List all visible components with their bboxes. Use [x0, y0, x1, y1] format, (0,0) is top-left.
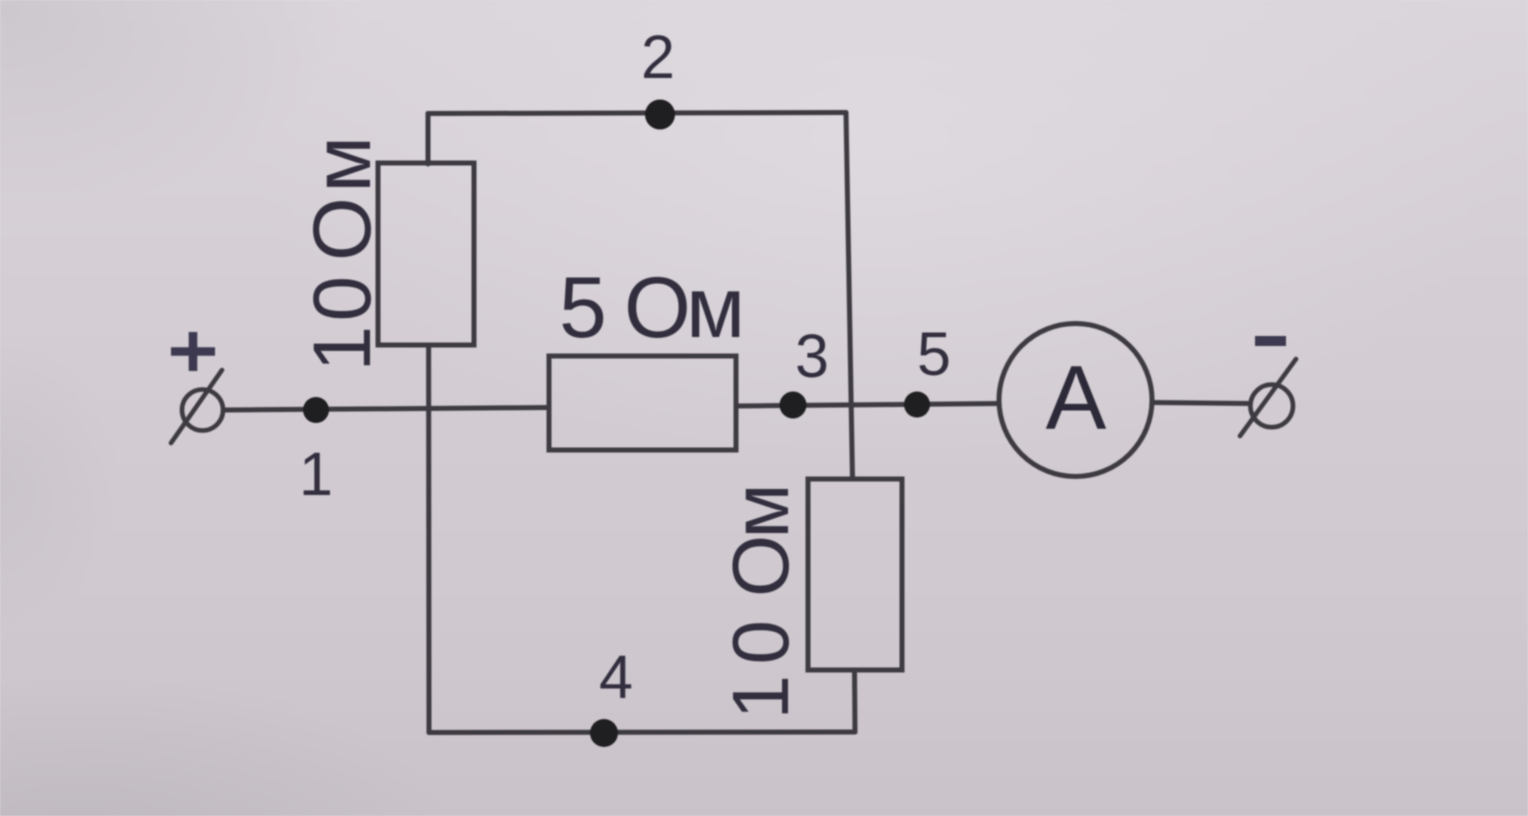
wire: left vertical upper stub: [426, 114, 431, 165]
svg-text:О: О: [624, 260, 691, 356]
node 2 junction dot: [645, 100, 675, 130]
wire: main horizontal middle (5 Ом to ammeter): [736, 404, 999, 407]
svg-text:м: м: [716, 484, 805, 539]
svg-text:м: м: [686, 260, 745, 356]
node 4 junction dot: [590, 719, 618, 747]
svg-text:5: 5: [559, 260, 607, 356]
svg-text:1: 1: [297, 326, 388, 372]
resistor R1 10 Ом (left vertical): [378, 163, 474, 345]
wire: main horizontal left (terminal to resistor 5 Ом): [224, 408, 549, 411]
svg-text:0: 0: [297, 276, 388, 322]
node 5 junction dot: [904, 392, 930, 418]
svg-text:1: 1: [299, 440, 333, 508]
terminal - slash: [1240, 359, 1296, 436]
svg-text:м: м: [297, 136, 388, 192]
wire: ammeter to right terminal: [1152, 403, 1250, 404]
terminal - (right) circle: [1250, 385, 1293, 428]
value label 10 Ом (right resistor, rotated): [716, 484, 805, 720]
svg-text:3: 3: [795, 322, 829, 390]
wire: right vertical lower stub: [852, 670, 858, 732]
value label 10 Ом (left resistor, rotated): [297, 136, 388, 371]
svg-text:О: О: [297, 197, 388, 261]
value label 5 Ом: [559, 260, 745, 356]
terminal - minus sign: [1255, 336, 1286, 346]
wire: right vertical upper: [846, 113, 853, 480]
ammeter U1 circle: [999, 324, 1152, 477]
resistor R2 5 Ом (middle horizontal): [549, 356, 736, 450]
resistor R3 10 Ом (right vertical): [808, 479, 902, 670]
terminal + plus sign: [171, 332, 215, 371]
svg-text:0: 0: [716, 620, 805, 665]
svg-text:О: О: [716, 535, 805, 597]
terminal + (left) circle: [182, 390, 223, 431]
svg-text:4: 4: [599, 643, 633, 711]
node 1 junction dot: [303, 397, 329, 423]
wire: top horizontal: [428, 113, 846, 114]
svg-text:2: 2: [641, 23, 675, 91]
terminal + slash: [171, 370, 222, 443]
svg-text:5: 5: [917, 320, 951, 388]
wire: left vertical lower: [426, 345, 431, 733]
svg-text:A: A: [1046, 348, 1107, 449]
wire: bottom horizontal: [429, 730, 855, 736]
node 3 junction dot: [780, 392, 807, 419]
svg-text:1: 1: [716, 675, 805, 720]
